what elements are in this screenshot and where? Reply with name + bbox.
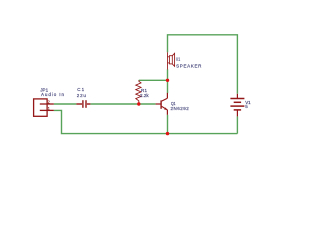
connector JP1 [34, 99, 54, 116]
transistor Q1 [156, 93, 168, 115]
resistor R1 [136, 80, 141, 104]
svg-text:U1: U1 [176, 57, 181, 62]
emitter arrowhead [164, 107, 167, 109]
wire: Q1 emitter down to bottom rail [167, 115, 169, 134]
svg-text:22u: 22u [77, 93, 87, 98]
junction dot at R1 top / speaker branch [166, 79, 169, 82]
capacitor C1 [76, 100, 90, 108]
wire: JP1 pin1 down to bottom rail [54, 110, 238, 133]
wire: JP1 pin2 to C1 left [54, 103, 77, 105]
svg-text:SPEAKER: SPEAKER [176, 64, 202, 69]
junction dot at emitter / bottom rail [166, 132, 169, 135]
battery V1 [230, 94, 244, 117]
wire: C1 right to Q1 base (through R1 junction) [90, 103, 155, 105]
wire: battery bottom to bottom rail [236, 116, 238, 133]
junction dot at R1 bottom [137, 102, 140, 105]
wire: R1 top horizontal to junction [139, 79, 168, 81]
speaker U1 [168, 52, 175, 69]
svg-text:2N6292: 2N6292 [171, 106, 190, 111]
svg-text:Audio In: Audio In [41, 92, 64, 97]
svg-text:C1: C1 [77, 87, 84, 92]
svg-text:Q1: Q1 [171, 101, 176, 106]
svg-text:2.2k: 2.2k [140, 93, 149, 98]
wire: speaker bottom to junction and down to Q1 collector [167, 69, 169, 93]
wire: top rail from speaker branch to battery branch [168, 35, 238, 94]
